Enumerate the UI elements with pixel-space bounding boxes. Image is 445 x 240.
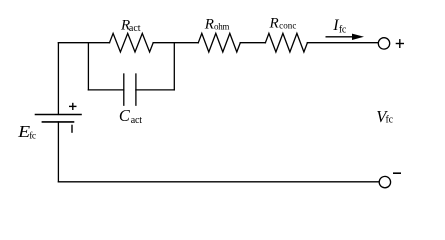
resistor R_ohm zigzag xyxy=(198,33,240,52)
svg-text:fc: fc xyxy=(339,25,347,36)
battery E_fc bottom plate xyxy=(42,121,73,123)
battery E_fc top plate xyxy=(36,114,82,116)
wire between R_act and R_ohm xyxy=(153,42,198,44)
svg-text:fc: fc xyxy=(29,130,36,141)
svg-text:ohm: ohm xyxy=(214,22,229,32)
label I_fc xyxy=(332,17,347,36)
wire R_conc to positive terminal xyxy=(307,42,378,44)
resistor R_conc zigzag xyxy=(265,33,307,52)
current arrow I_fc xyxy=(326,34,365,40)
node B: parallel branch right vertical xyxy=(173,43,175,90)
terminal negative circle xyxy=(379,176,390,187)
label C_act xyxy=(119,106,142,126)
wire top-left horizontal xyxy=(58,42,109,44)
wire bottom horizontal xyxy=(58,181,379,183)
wire between R_ohm and R_conc xyxy=(240,42,265,44)
svg-text:R: R xyxy=(269,16,279,32)
wire left vertical (top) xyxy=(57,43,59,115)
battery minus tick xyxy=(71,125,73,133)
svg-text:fc: fc xyxy=(386,115,394,126)
svg-text:act: act xyxy=(129,23,141,34)
svg-text:conc: conc xyxy=(279,20,296,30)
label R_conc xyxy=(269,16,297,32)
terminal plus sign xyxy=(396,39,404,48)
svg-text:C: C xyxy=(119,106,131,125)
label R_act xyxy=(120,17,141,33)
node A: parallel branch left vertical xyxy=(87,43,89,90)
label R_ohm xyxy=(204,17,230,33)
label V_fc xyxy=(376,107,393,126)
battery plus sign xyxy=(69,103,77,110)
terminal minus sign xyxy=(393,172,401,174)
terminal positive circle xyxy=(378,38,389,49)
label E_fc xyxy=(17,122,36,142)
wire left vertical (bottom) xyxy=(57,122,59,182)
svg-text:act: act xyxy=(131,115,142,126)
capacitor C_act plates xyxy=(123,74,125,105)
wire cap right horizontal xyxy=(136,89,174,91)
svg-text:R: R xyxy=(204,17,214,33)
resistor R_act zigzag xyxy=(110,33,154,52)
wire cap left horizontal xyxy=(88,89,123,91)
